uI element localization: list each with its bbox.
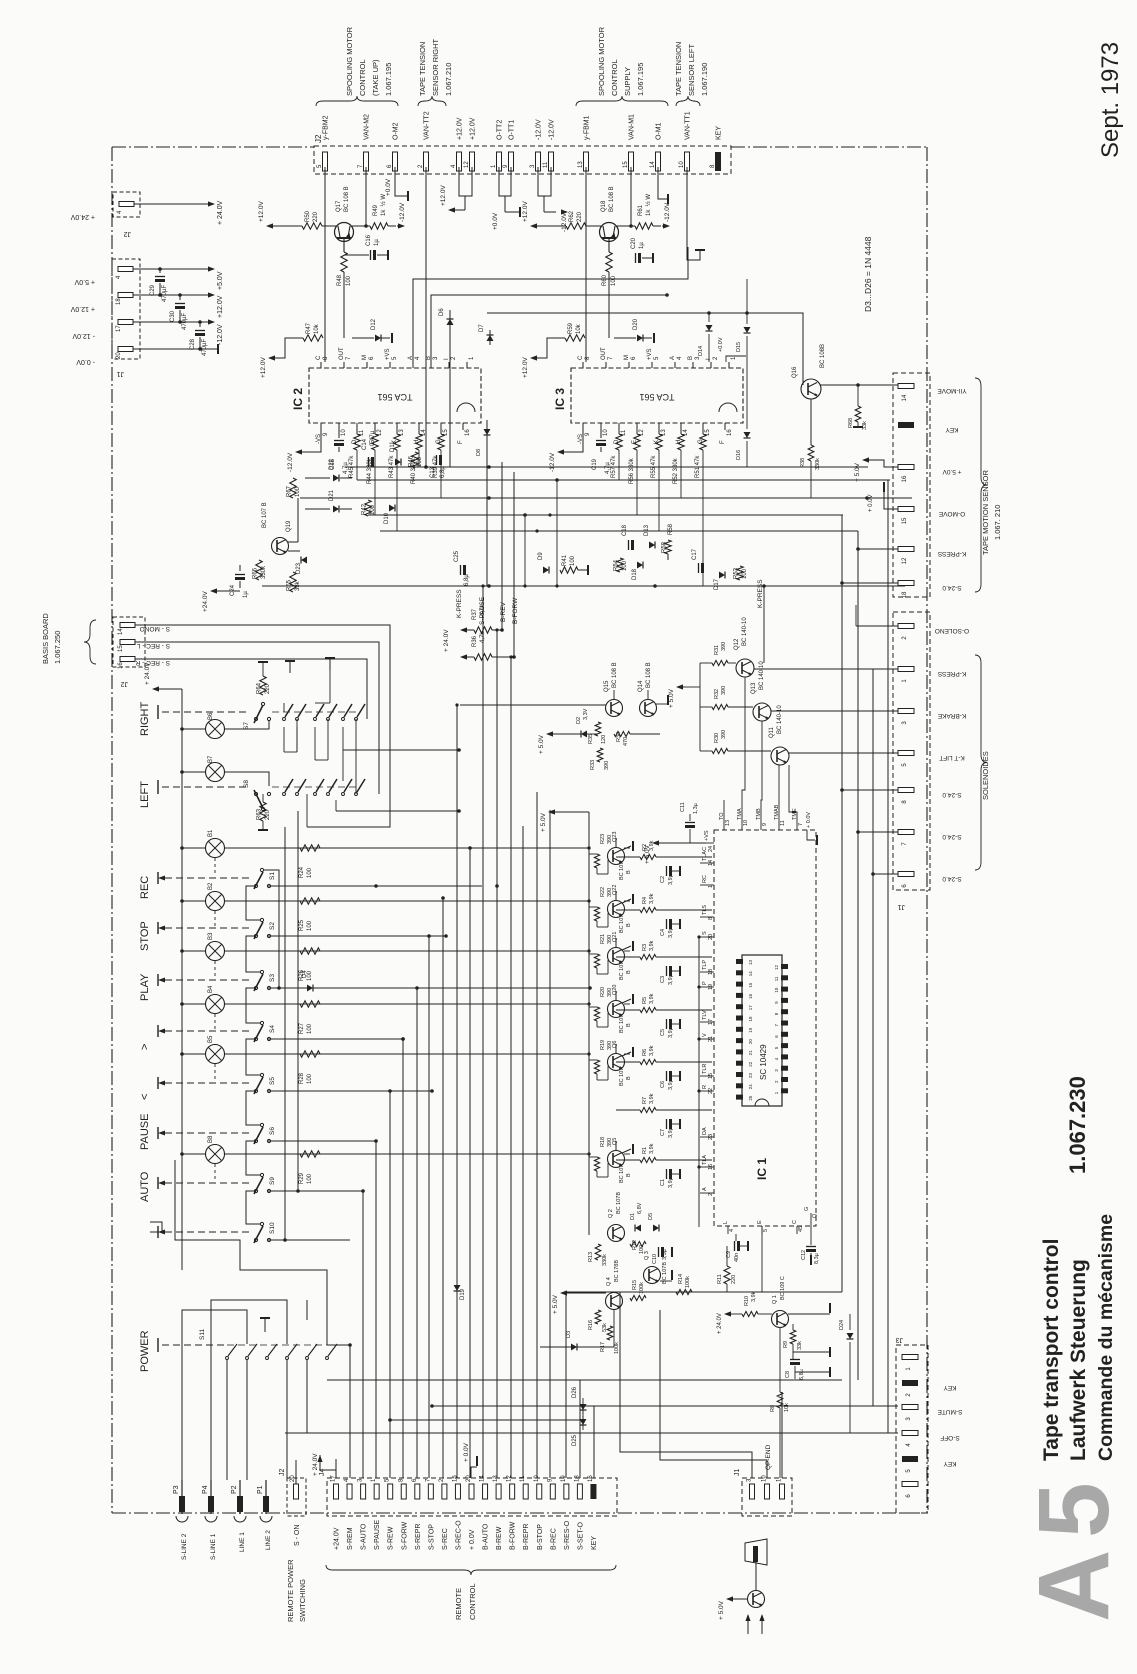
wire VAN-M1 pin 15 down to Q18 — [630, 167, 632, 225]
wire VAN-TT2 pin 2 down — [425, 167, 427, 462]
IC1 pin 2 (A) — [700, 1192, 714, 1194]
diode D9 — [543, 567, 549, 574]
resistor R14 100k — [676, 1289, 692, 1294]
IC3 bottom pin 11 D — [618, 423, 620, 430]
svg-text:+ 5.0V: + 5.0V — [718, 1600, 725, 1620]
wire Q16 emitter down — [810, 399, 812, 445]
svg-text:O-M2: O-M2 — [393, 122, 400, 140]
wire long row y=1380 — [327, 1379, 842, 1381]
svg-text:BC 108 B: BC 108 B — [609, 186, 615, 212]
svg-text:15: 15 — [708, 1073, 714, 1079]
svg-text:B-REV: B-REV — [500, 601, 507, 622]
svg-text:BC 108B: BC 108B — [820, 344, 826, 368]
svg-text:3,3µ: 3,3µ — [662, 1248, 668, 1260]
wire +12.0V to R59 — [538, 338, 565, 358]
svg-text:AUTO: AUTO — [139, 1171, 151, 1202]
svg-text:RIGHT: RIGHT — [139, 702, 151, 737]
brace: spooling motor control supply group — [576, 96, 668, 106]
svg-text:120: 120 — [601, 735, 607, 744]
capacitor C20 1u — [635, 253, 637, 263]
svg-text:C30: C30 — [170, 310, 176, 322]
svg-text:C13: C13 — [430, 466, 436, 478]
svg-text:R45 47k: R45 47k — [349, 455, 355, 478]
svg-text:R35: R35 — [588, 734, 594, 744]
wire riser x=497 — [496, 630, 498, 1478]
svg-text:R63: R63 — [257, 808, 263, 820]
svg-text:SPOOLING MOTOR: SPOOLING MOTOR — [597, 26, 606, 96]
lamp B7 — [206, 763, 225, 782]
svg-text:40n: 40n — [734, 1253, 740, 1262]
wire riser x=457 — [456, 705, 458, 1478]
svg-text:D3...D26 = 1N 4448: D3...D26 = 1N 4448 — [863, 236, 873, 312]
svg-text:D5: D5 — [648, 1213, 654, 1220]
svg-text:+ 5.0V: + 5.0V — [538, 734, 545, 754]
resistor R30 390 — [712, 748, 728, 753]
svg-text:6,8V: 6,8V — [637, 1202, 643, 1214]
IC1 dashed outline — [714, 830, 816, 1226]
svg-text:S6: S6 — [269, 1127, 276, 1135]
svg-text:-12.0V: -12.0V — [287, 452, 294, 472]
svg-text:C5: C5 — [660, 1029, 666, 1036]
svg-text:100: 100 — [611, 275, 617, 286]
button actuator S10 — [157, 1226, 159, 1238]
svg-text:3,9k: 3,9k — [751, 1291, 757, 1302]
transistor Q21 BC107B — [608, 948, 625, 965]
svg-text:R9: R9 — [783, 1341, 789, 1348]
capacitor C4 3.9u — [666, 919, 668, 929]
capacitor C13 6.8u — [436, 455, 438, 465]
svg-text:OUT: OUT — [339, 347, 345, 360]
svg-text:+12.0V: +12.0V — [217, 295, 224, 318]
resistor R39 47k — [440, 430, 442, 434]
svg-text:B-REC: B-REC — [550, 1528, 557, 1550]
svg-text:19: 19 — [708, 984, 714, 990]
svg-text:C4: C4 — [660, 929, 666, 936]
wire lamp row y=901 — [225, 900, 589, 902]
svg-text:22: 22 — [748, 1061, 753, 1067]
resistor R65 33k — [290, 572, 296, 592]
svg-text:K-PRESS: K-PRESS — [937, 550, 966, 557]
svg-text:21: 21 — [708, 1036, 714, 1042]
IC2 bottom pin 9 -VS — [320, 423, 322, 430]
svg-text:y-FBM2: y-FBM2 — [323, 115, 330, 140]
IC3 top pin 5 +VS — [651, 362, 653, 368]
svg-text:+ 5.0V: + 5.0V — [854, 462, 861, 482]
connector J2 (top row) — [314, 146, 731, 174]
svg-text:BC 178B: BC 178B — [614, 1260, 620, 1282]
connector J4 bottom row — [327, 1478, 617, 1516]
button LEFT actuator — [157, 780, 159, 794]
svg-text:BASIS BOARD: BASIS BOARD — [41, 613, 50, 664]
diode D25 — [582, 1416, 584, 1430]
grounds Q14/Q15 — [656, 703, 668, 705]
svg-text:R19: R19 — [600, 1040, 606, 1050]
svg-text:R26: R26 — [299, 969, 305, 981]
wire bus row B — [357, 479, 890, 481]
resistor R15 100k — [630, 1295, 646, 1300]
svg-text:R60: R60 — [602, 274, 608, 286]
svg-text:P4: P4 — [202, 1485, 209, 1494]
transistor Q4 BC178B — [606, 1293, 623, 1310]
connector J2 pin 2 (VAN-TT2) — [424, 152, 429, 171]
switch matrix contacts row LEFT — [283, 793, 286, 796]
svg-text:R15: R15 — [632, 1280, 638, 1290]
svg-text:BC 140-10: BC 140-10 — [759, 661, 765, 690]
svg-text:S11: S11 — [199, 1329, 206, 1340]
svg-text:330k: 330k — [602, 1254, 608, 1266]
svg-text:K-T LIFT: K-T LIFT — [939, 754, 965, 761]
svg-text:13: 13 — [493, 1475, 499, 1482]
IC2 top pin 8 C — [320, 362, 322, 368]
transistor Q11 BC140-10 — [771, 747, 789, 765]
svg-text:24: 24 — [708, 846, 714, 852]
svg-text:470: 470 — [623, 737, 629, 746]
IC2 top pin 6 M — [366, 362, 368, 368]
svg-text:33k: 33k — [295, 580, 301, 591]
svg-text:1k ½ W: 1k ½ W — [645, 194, 652, 216]
svg-text:R23: R23 — [600, 834, 606, 844]
wire +24V drop to switch region — [175, 1160, 327, 1345]
switch S2 — [260, 918, 263, 921]
svg-text:+0.0V: +0.0V — [385, 178, 392, 196]
wire riser x=594 — [593, 1406, 595, 1478]
connector J4 pin 11 (B-REPR) — [523, 1484, 528, 1499]
svg-text:1: 1 — [902, 679, 908, 683]
svg-text:D12: D12 — [371, 318, 377, 330]
svg-text:1k ½ W: 1k ½ W — [380, 194, 387, 216]
svg-text:15: 15 — [623, 161, 629, 168]
svg-text:3,9k: 3,9k — [649, 1045, 655, 1056]
diode D10 — [389, 505, 395, 512]
svg-text:R61: R61 — [638, 204, 644, 216]
svg-text:2: 2 — [774, 1080, 779, 1083]
IC1 pin 1 (RC) — [700, 884, 714, 886]
svg-text:1,3µ: 1,3µ — [693, 802, 699, 814]
svg-text:45: 45 — [798, 1226, 804, 1232]
svg-text:16: 16 — [465, 429, 471, 436]
resistor R20 390 — [594, 1007, 599, 1021]
svg-text:Laufwerk Steuerung: Laufwerk Steuerung — [1067, 1259, 1090, 1461]
wire +24.0V arrow — [724, 1311, 731, 1316]
svg-text:R24: R24 — [299, 866, 305, 878]
capacitor C12 8.3u — [806, 1246, 816, 1248]
svg-text:C24: C24 — [230, 584, 236, 596]
svg-text:-12.0V: -12.0V — [399, 202, 406, 222]
svg-text:R7: R7 — [642, 1097, 648, 1104]
svg-text:B-AUTO: B-AUTO — [483, 1523, 490, 1550]
connector pin S-24.0 — [898, 788, 914, 793]
wire riser x=376 — [375, 1141, 377, 1478]
svg-text:470µF: 470µF — [202, 339, 208, 356]
svg-text:KEY: KEY — [945, 426, 959, 433]
wire +5.0V arrow lower — [548, 809, 555, 814]
IC2 top pin 5 +VS — [389, 362, 391, 368]
svg-text:C: C — [792, 1220, 798, 1224]
svg-text:17: 17 — [331, 1475, 337, 1482]
capacitor C14 0.47u — [368, 457, 370, 467]
IC3 bottom pin 10 — [600, 423, 602, 430]
connector P1 plug — [265, 1480, 267, 1514]
svg-text:12: 12 — [902, 557, 908, 564]
resistor R37 4.7k with +24V arrow — [460, 627, 467, 632]
svg-text:53k: 53k — [602, 1323, 608, 1332]
svg-text:100: 100 — [307, 867, 313, 878]
svg-text:7: 7 — [774, 1024, 779, 1027]
svg-text:CONTROL: CONTROL — [358, 59, 367, 96]
svg-text:7: 7 — [608, 356, 614, 360]
IC2 bottom pin 11 D — [356, 423, 358, 430]
svg-text:+ 24.0V: + 24.0V — [144, 662, 151, 685]
switch S1 — [260, 868, 263, 871]
svg-text:18: 18 — [574, 1475, 580, 1482]
IC3 bottom pin 15 G — [702, 423, 704, 430]
resistor R7 3.9k — [640, 1107, 656, 1112]
svg-text:5: 5 — [1018, 1482, 1130, 1538]
svg-text:BC 108 B: BC 108 B — [344, 186, 350, 212]
diode D5 — [653, 1225, 659, 1232]
svg-text:+5.0V: +5.0V — [217, 271, 224, 290]
svg-text:C1: C1 — [660, 1179, 666, 1186]
svg-text:100: 100 — [370, 504, 376, 515]
svg-text:SUPPLY: SUPPLY — [623, 67, 632, 96]
transistor Q19 BC107B — [272, 538, 289, 555]
wire riser x=336 — [335, 1459, 337, 1478]
connector J1 pin 17 (-12.0V) — [118, 320, 133, 325]
wire riser x=429 — [428, 936, 430, 1478]
svg-text:J4: J4 — [319, 1469, 326, 1477]
IC3 top pin 1 — [728, 362, 730, 368]
diode D18 — [637, 562, 643, 569]
svg-text:8: 8 — [323, 356, 329, 360]
svg-text:3,9k: 3,9k — [649, 1143, 655, 1154]
svg-text:D17: D17 — [714, 578, 720, 590]
svg-text:+ 5.0V: + 5.0V — [74, 278, 95, 285]
connector pin K-PRESS — [898, 547, 914, 552]
capacitor C25 — [460, 565, 462, 575]
transistor Q20 BC107B — [608, 1001, 625, 1018]
resistor R21 390 — [594, 954, 599, 968]
svg-text:1µ: 1µ — [243, 591, 249, 598]
svg-text:R16: R16 — [588, 1320, 594, 1330]
resistor R31 390 — [712, 660, 728, 665]
wire S1 top contact to chain vertical — [264, 870, 279, 988]
IC1 right pin G/Q — [810, 1213, 812, 1226]
IC3 bottom pin 9 -VS — [582, 423, 584, 430]
capacitor C19 4.7u at IC3 pin10 — [600, 430, 602, 438]
svg-text:R43 47k: R43 47k — [389, 455, 395, 478]
svg-text:R8: R8 — [770, 1405, 776, 1412]
svg-text:B4: B4 — [208, 985, 214, 993]
svg-text:TLA: TLA — [702, 1155, 708, 1165]
svg-text:10: 10 — [679, 161, 685, 168]
connector pin + 5.0V — [898, 465, 914, 470]
svg-text:R13: R13 — [588, 1252, 594, 1262]
svg-text:RC: RC — [702, 875, 708, 883]
svg-text:15: 15 — [902, 517, 908, 524]
svg-text:9: 9 — [547, 1478, 553, 1482]
resistor R4 3.9k — [640, 907, 656, 912]
svg-text:F: F — [720, 440, 726, 444]
connector J4 pin 15 (S-REC-O) — [455, 1484, 460, 1499]
svg-text:IC 1: IC 1 — [755, 1158, 769, 1180]
svg-text:S-REM: S-REM — [347, 1527, 354, 1550]
connector J2 pin 14 (O-M1) — [656, 152, 661, 171]
connector J2 pin 7 (VAN-M2) — [364, 152, 369, 171]
svg-text:J1: J1 — [117, 370, 125, 377]
svg-text:F: F — [458, 440, 464, 444]
wire E pin down — [761, 1226, 763, 1292]
svg-text:17: 17 — [116, 325, 122, 332]
capacitor C17 — [698, 563, 700, 573]
svg-text:14: 14 — [118, 628, 124, 635]
svg-text:13: 13 — [748, 959, 753, 965]
resistor R52 330k — [680, 430, 682, 434]
svg-text:9: 9 — [585, 432, 591, 436]
resistor R10 3.9k — [742, 1311, 758, 1316]
svg-text:1: 1 — [469, 356, 475, 360]
resistor R62 220 — [566, 223, 586, 229]
svg-text:R10: R10 — [744, 1296, 750, 1306]
svg-text:16: 16 — [902, 475, 908, 482]
connector J2 (+24V, left edge) — [113, 192, 140, 217]
capacitor C29 470uF — [159, 269, 161, 273]
wire riser x=537 — [536, 792, 538, 1478]
svg-text:R67: R67 — [287, 485, 293, 497]
connector J1 right column (tape motion sensor) — [893, 373, 930, 597]
svg-text:PAUSE: PAUSE — [139, 1114, 151, 1150]
svg-text:S-REC: S-REC — [442, 1528, 449, 1550]
svg-text:14: 14 — [480, 1475, 486, 1482]
svg-text:C: C — [316, 355, 322, 360]
wire +5.0V arrow at D2 — [546, 731, 553, 736]
IC1 pin 23 (DA) — [700, 1136, 714, 1138]
svg-text:D10: D10 — [384, 512, 390, 524]
wire lamp row y=1054 — [225, 1053, 589, 1055]
svg-text:22: 22 — [708, 1088, 714, 1094]
svg-text:+ 12.0V: + 12.0V — [70, 305, 95, 312]
wire S-REC-L to switch matrix — [135, 642, 379, 794]
transistor Q2 BC107B — [608, 1225, 625, 1242]
lamp B2 — [206, 892, 225, 911]
svg-text:S3: S3 — [269, 974, 276, 982]
svg-text:VAN-M2: VAN-M2 — [364, 114, 371, 140]
svg-text:R22: R22 — [600, 887, 606, 897]
wire riser x=580 — [579, 1380, 581, 1478]
button POWER actuator — [157, 1338, 159, 1352]
connector J4 pin 17 (+24.0V) — [334, 1484, 339, 1499]
svg-text:10: 10 — [341, 429, 347, 436]
resistor R68 33k — [855, 406, 861, 422]
svg-text:+VS: +VS — [385, 348, 391, 360]
resistor R57 47k — [618, 430, 620, 434]
svg-text:P3: P3 — [173, 1485, 180, 1494]
svg-text:O-M1: O-M1 — [656, 122, 663, 140]
button actuator S4 — [157, 1025, 159, 1037]
svg-text:J2: J2 — [279, 1469, 286, 1477]
svg-text:R41: R41 — [562, 554, 568, 566]
svg-text:D24: D24 — [839, 1320, 845, 1330]
svg-text:C: C — [578, 355, 584, 360]
svg-text:B: B — [626, 923, 632, 927]
wire riser x=511 — [510, 657, 512, 1478]
svg-text:R11: R11 — [717, 1274, 723, 1284]
svg-text:Q 4: Q 4 — [606, 1277, 612, 1286]
connector J3 pin 3 S-MUTE — [902, 1405, 918, 1410]
svg-text:C7: C7 — [660, 1129, 666, 1136]
svg-text:18: 18 — [116, 298, 122, 305]
svg-text:+12.0V: +12.0V — [470, 117, 477, 140]
svg-text:C17: C17 — [692, 548, 698, 560]
switch S9 — [260, 1173, 263, 1176]
svg-text:M: M — [624, 355, 630, 360]
wire lamp row y=1154 — [225, 1153, 589, 1155]
svg-text:100: 100 — [346, 275, 352, 286]
svg-text:D2: D2 — [576, 717, 582, 724]
capacitor C30 470uF — [179, 295, 181, 300]
wire K-PRESS to column — [858, 548, 898, 550]
connector pin K-BRAKE — [898, 709, 914, 714]
svg-text:100: 100 — [307, 1173, 313, 1184]
wire riser x=550 — [549, 810, 551, 1478]
svg-text:+24.0V: +24.0V — [334, 1527, 341, 1550]
svg-text:5: 5 — [654, 356, 660, 360]
svg-text:D21: D21 — [329, 489, 335, 501]
svg-text:PLAY: PLAY — [139, 973, 151, 1001]
resistor R54 100 — [617, 558, 623, 572]
svg-text:B5: B5 — [208, 1035, 214, 1043]
svg-text:S5: S5 — [269, 1077, 276, 1085]
wires J1 bottom up — [620, 1292, 752, 1478]
svg-text:B-REW: B-REW — [496, 1526, 503, 1550]
svg-text:KEY: KEY — [943, 1460, 957, 1467]
Q20 emitter/collector wires — [622, 999, 631, 1003]
connector J4 pin 20 (+ 0.0V) — [469, 1484, 474, 1499]
wire riser from VAN-TT2 bend — [425, 462, 427, 467]
chip SC10429 right pins — [781, 964, 788, 969]
svg-text:15: 15 — [452, 1475, 458, 1482]
diode D26 — [582, 1398, 584, 1414]
svg-text:10k: 10k — [784, 1403, 790, 1412]
svg-text:470µF: 470µF — [162, 285, 168, 302]
wire riser x=363 — [362, 1191, 364, 1478]
diode D8 — [484, 429, 491, 435]
wire +5.0V arrow at R31 — [676, 684, 683, 689]
power switch wires down — [226, 1360, 228, 1480]
connector J2 pin 16 (S - REC - R) — [120, 657, 135, 662]
bottom right transistor (photo sensor) — [748, 1591, 765, 1608]
switch S6 — [260, 1123, 263, 1126]
svg-text:1.067.190: 1.067.190 — [700, 63, 709, 96]
ground after R41 — [578, 569, 588, 571]
svg-text:B-STOP: B-STOP — [537, 1524, 544, 1550]
connector J2 pin 1 (O-TT2) — [497, 152, 502, 171]
diode D6 — [449, 310, 451, 330]
svg-text:390: 390 — [604, 761, 610, 770]
resistor R50 220 — [302, 223, 322, 229]
svg-text:LINE 1: LINE 1 — [239, 1532, 246, 1552]
svg-text:R38: R38 — [800, 458, 806, 468]
svg-text:S-LINE 2: S-LINE 2 — [181, 1533, 188, 1560]
IC3 top pin 3 B — [692, 362, 694, 368]
svg-text:+ 0.0V: + 0.0V — [463, 1442, 470, 1462]
svg-text:16: 16 — [118, 662, 124, 669]
svg-text:8: 8 — [774, 1012, 779, 1015]
svg-text:13: 13 — [725, 820, 731, 826]
wire riser x=417 — [416, 988, 418, 1478]
svg-text:3: 3 — [774, 1069, 779, 1072]
svg-text:B2: B2 — [208, 882, 214, 890]
svg-text:R27: R27 — [299, 1022, 305, 1034]
